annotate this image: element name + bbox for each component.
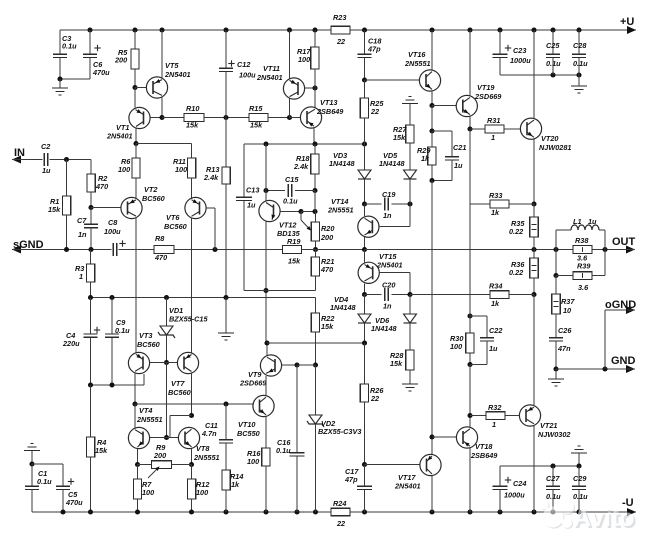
svg-text:VT11: VT11 <box>263 64 280 73</box>
transistor VT16 <box>419 70 440 91</box>
wire R37 top lead <box>555 276 557 295</box>
wire y404 line to VT10 base <box>135 403 253 405</box>
zener diode VD2 <box>309 415 322 424</box>
resistor R16 <box>262 448 270 466</box>
svg-text:470: 470 <box>95 182 108 191</box>
wire junction <box>88 247 93 252</box>
junction +U rail x=364.5 <box>362 27 367 32</box>
wire R29 bottom lead <box>431 165 433 181</box>
resistor R5 <box>131 49 139 69</box>
wire VT19 base <box>432 105 456 107</box>
wire block left down <box>555 250 557 276</box>
wire VT1 collector up <box>134 88 136 108</box>
wire base node vertical <box>166 363 168 438</box>
wire R9 left lead <box>138 464 152 466</box>
wire C28 bottom lead <box>578 58 580 76</box>
svg-text:BC560: BC560 <box>137 340 160 349</box>
svg-text:R32: R32 <box>488 403 501 412</box>
wire C4 top lead <box>90 298 92 335</box>
node R17 bottom / VT13 <box>312 85 317 90</box>
wire VT5 emitter down <box>161 98 163 118</box>
wire L1 right corner <box>604 230 606 250</box>
node R31 left <box>467 126 472 131</box>
svg-text:1k: 1k <box>231 480 240 489</box>
node C19 right / VD5 / VT14 base <box>407 201 412 206</box>
svg-text:VT18: VT18 <box>475 442 493 451</box>
wire junction <box>109 382 114 387</box>
wire ground stem <box>59 79 61 88</box>
svg-text:15k: 15k <box>321 322 334 331</box>
wire VT18 down to -U rail <box>469 448 471 512</box>
wire R16 bottom lead <box>265 466 267 512</box>
svg-text:R20: R20 <box>321 224 334 233</box>
transistor VT17 <box>420 454 441 475</box>
trimmer R20 <box>311 222 319 241</box>
svg-text:NJW0302: NJW0302 <box>538 430 570 439</box>
junction +U rail x=500 <box>497 27 502 32</box>
node VT6 emitter tap <box>212 247 217 252</box>
wire ground stem bottom right <box>578 453 580 466</box>
wire ground stem top right <box>578 75 580 86</box>
resistor R11 <box>187 158 195 178</box>
wire -U rail right <box>350 511 636 513</box>
capacitor C28 <box>572 53 586 55</box>
svg-text:R39: R39 <box>577 262 591 271</box>
wire R18 bottom lead <box>314 174 316 191</box>
svg-text:15k: 15k <box>48 205 61 214</box>
svg-text:0.1u: 0.1u <box>283 197 298 206</box>
svg-text:C26: C26 <box>558 326 572 335</box>
wire R22 bottom lead <box>315 332 317 365</box>
wire C21 bottom lead <box>451 160 453 181</box>
wire VT19e vertical upper <box>469 129 471 250</box>
svg-text:C28: C28 <box>573 41 587 50</box>
wire C15 left lead <box>266 190 285 192</box>
wire C23 bottom lead <box>499 58 501 76</box>
wire output rail <box>365 249 627 251</box>
svg-text:2SB649: 2SB649 <box>470 451 498 460</box>
wire R27 top lead <box>409 104 411 126</box>
wire C18 top lead <box>364 30 366 54</box>
wire bias line y144 <box>244 143 365 145</box>
wire VT13 base <box>290 117 301 119</box>
node output rail / VT14-VT15 <box>362 247 367 252</box>
svg-text:L1: L1 <box>573 217 582 226</box>
wire tap down to base node <box>169 416 171 438</box>
wire junction <box>553 247 558 252</box>
svg-text:2N5551: 2N5551 <box>136 415 163 424</box>
node VT9 / y343 line <box>264 340 269 345</box>
wire to R11 top <box>136 143 192 145</box>
svg-text:C24: C24 <box>513 479 526 488</box>
svg-text:1N4148: 1N4148 <box>330 303 357 312</box>
wire VT4 collector up <box>134 404 136 428</box>
wire C3-C6 bottom join <box>60 78 90 80</box>
svg-text:1: 1 <box>492 420 496 429</box>
node C20 left <box>362 292 367 297</box>
junction +U rail x=226 <box>223 27 228 32</box>
resistor R19 <box>283 246 302 254</box>
svg-text:100: 100 <box>247 457 259 466</box>
wire VT20 collector to +U <box>533 30 535 118</box>
wire junction <box>576 463 581 468</box>
wire C9 top lead <box>111 298 113 335</box>
junction +U rail x=432 <box>429 27 434 32</box>
wire R33 right lead <box>509 203 534 205</box>
capacitor C6 (electrolytic) <box>83 53 97 55</box>
svg-text:R10: R10 <box>186 104 199 113</box>
wire VD5 bottom lead <box>409 179 411 204</box>
svg-text:R19: R19 <box>287 237 301 246</box>
wire VT19e vertical mid <box>469 250 471 317</box>
wire VT9 emitter to VT10 <box>265 376 267 395</box>
wire C6 bottom lead <box>89 58 91 80</box>
transistor VT20 <box>520 118 541 139</box>
wire C7 bottom lead <box>90 228 92 250</box>
transistor VT18 <box>456 427 477 448</box>
wire +U rail right <box>350 29 636 31</box>
wire VD1 to base node <box>166 335 168 363</box>
wire R5 top lead <box>134 30 136 49</box>
resistor R34 <box>490 291 509 299</box>
wire R21 top lead <box>315 250 317 258</box>
resistor R27 <box>406 125 414 143</box>
wire R35 bottom lead <box>533 237 535 250</box>
wire C19 right lead <box>392 203 410 205</box>
svg-text:1N4148: 1N4148 <box>371 324 398 333</box>
junction -U rail x=470 <box>467 509 472 514</box>
wire junction <box>550 463 555 468</box>
svg-text:0.1u: 0.1u <box>115 326 130 335</box>
junction -U rail x=90.5 <box>88 509 93 514</box>
resistor R14 <box>222 470 230 490</box>
wire VT5 base <box>135 87 147 89</box>
svg-text:200: 200 <box>153 451 166 460</box>
svg-text:2SD669: 2SD669 <box>474 92 502 101</box>
resistor R29 <box>428 147 436 165</box>
wire C26 bottom lead <box>555 341 557 369</box>
svg-text:22: 22 <box>370 107 379 116</box>
wire R19 to out node <box>302 249 365 251</box>
resistor R3 <box>86 264 94 282</box>
wire L1 left corner <box>555 230 557 250</box>
wire VT20 emitter down <box>533 139 535 204</box>
wire R5 bottom lead <box>134 69 136 88</box>
svg-text:100: 100 <box>298 55 310 64</box>
node R34 right / VT21 emitter <box>531 292 536 297</box>
svg-text:1000u: 1000u <box>504 491 525 500</box>
wire VT10 emitter down <box>265 417 267 449</box>
resistor R10 <box>184 114 204 122</box>
svg-text:C25: C25 <box>546 41 560 50</box>
resistor R7 <box>133 479 141 499</box>
wire VT17 base <box>365 464 420 466</box>
svg-text:VT10: VT10 <box>238 420 255 429</box>
svg-text:R31: R31 <box>487 116 500 125</box>
node VT19 base <box>429 103 434 108</box>
node C11 top <box>223 401 228 406</box>
wire R25 top lead <box>364 80 366 98</box>
wire junction <box>263 141 268 146</box>
svg-text:VT16: VT16 <box>408 50 426 59</box>
wire junction <box>109 295 114 300</box>
wire C21 top branch <box>432 130 452 132</box>
svg-text:VT2: VT2 <box>144 185 157 194</box>
svg-text:C2: C2 <box>41 142 50 151</box>
svg-text:15k: 15k <box>95 446 108 455</box>
node R22 / VD2 / C16 line <box>313 362 318 367</box>
svg-text:C19: C19 <box>382 190 396 199</box>
wire <box>599 229 605 231</box>
junction +U rail x=534 <box>531 27 536 32</box>
node C15 right <box>312 188 317 193</box>
svg-text:2.4k: 2.4k <box>203 173 219 182</box>
resistor R2 <box>87 174 95 192</box>
svg-text:VT5: VT5 <box>165 61 179 70</box>
wire R27-VD5 <box>409 143 411 170</box>
wire <box>556 229 571 231</box>
wire VT16 base <box>365 79 420 81</box>
svg-text:+U: +U <box>620 16 634 28</box>
svg-text:220u: 220u <box>62 339 80 348</box>
wire VT5e to R10 <box>162 117 184 119</box>
svg-text:C27: C27 <box>546 474 560 483</box>
wire VT16 collector to +U <box>431 30 433 70</box>
svg-text:1u: 1u <box>489 344 498 353</box>
svg-text:3.6: 3.6 <box>578 283 589 292</box>
wire VT12 emitter/collector right <box>280 211 301 213</box>
wire VT15 emitter down <box>364 283 366 294</box>
wire VT14 base up to node <box>409 204 411 227</box>
svg-text:C13: C13 <box>246 186 259 195</box>
wire C17 bottom lead <box>364 490 366 513</box>
node C16 top <box>294 362 299 367</box>
node feedback on out rail <box>313 247 318 252</box>
wire R7 top lead <box>137 465 139 480</box>
transistor VT9 <box>260 355 281 376</box>
wire VD2 top lead <box>315 365 317 415</box>
svg-text:47n: 47n <box>557 344 571 353</box>
svg-text:1k: 1k <box>421 154 430 163</box>
wire C4 node down to R4 <box>90 385 92 437</box>
svg-text:VT7: VT7 <box>171 379 185 388</box>
wire <box>627 249 636 251</box>
IN terminal arrow <box>12 156 21 164</box>
-U terminal arrow <box>627 508 636 516</box>
svg-text:BC550: BC550 <box>237 429 260 438</box>
wire R34 left lead segment <box>470 294 490 296</box>
transistor VT13 <box>300 107 321 128</box>
wire R17 top lead <box>314 30 316 47</box>
wire R13 top lead <box>225 118 227 168</box>
wire C22 bottom lead <box>486 341 488 365</box>
wire IN to C2 <box>12 159 42 161</box>
svg-text:C23: C23 <box>513 46 526 55</box>
wire VT11 collector to +U <box>289 30 291 79</box>
svg-text:10: 10 <box>563 306 571 315</box>
wire ground stem down <box>31 451 33 465</box>
wire R31 left lead <box>470 128 485 130</box>
resistor R33 <box>490 200 509 208</box>
svg-text:470: 470 <box>154 253 167 262</box>
wire VT2 base <box>91 207 121 209</box>
transistor VT1 <box>129 107 150 128</box>
svg-text:1u: 1u <box>247 201 256 210</box>
wire block right down <box>604 250 606 276</box>
wire R6 to VT2 collector <box>135 178 137 199</box>
capacitor C25 <box>546 53 560 55</box>
wire R6 top lead <box>135 144 137 159</box>
svg-text:470: 470 <box>320 265 333 274</box>
node R33 right / R35 top <box>531 201 536 206</box>
capacitor C18 <box>358 53 372 55</box>
junction +U rail x=579 <box>576 27 581 32</box>
wire VD3 top lead <box>364 144 366 170</box>
svg-text:15k: 15k <box>393 133 406 142</box>
svg-text:100: 100 <box>450 342 462 351</box>
junction -U rail x=63 <box>60 509 65 514</box>
svg-text:2.4k: 2.4k <box>293 162 309 171</box>
capacitor C21 <box>445 156 459 158</box>
node VT16 base / R25 <box>362 77 367 82</box>
svg-text:1N4148: 1N4148 <box>329 159 356 168</box>
svg-text:VT8: VT8 <box>196 444 210 453</box>
junction -U rail x=364.5 <box>362 509 367 514</box>
diode VD3 <box>358 170 371 179</box>
ground (bias line) <box>218 332 234 334</box>
wire R1 bottom lead <box>66 215 68 250</box>
transistor VT7 <box>177 352 198 373</box>
transistor VT2 <box>121 197 142 218</box>
capacitor C24 (electrolytic) <box>493 485 508 487</box>
svg-text:C29: C29 <box>573 474 587 483</box>
svg-text:100: 100 <box>196 488 208 497</box>
wire R21 bottom lead <box>315 276 317 291</box>
svg-text:470u: 470u <box>92 68 110 77</box>
svg-text:BC560: BC560 <box>142 194 165 203</box>
capacitor C15 <box>287 184 289 197</box>
wire R20 top lead <box>315 212 317 223</box>
sGND terminal arrow <box>12 246 21 254</box>
wire <box>627 309 636 311</box>
svg-text:VT3: VT3 <box>139 331 152 340</box>
wire R25 bottom lead <box>364 118 366 144</box>
wire junction <box>223 295 228 300</box>
diode VD4 <box>358 314 371 323</box>
node R37 top <box>553 273 558 278</box>
svg-text:15k: 15k <box>288 257 301 266</box>
svg-text:VT13: VT13 <box>320 98 337 107</box>
resistor R17 <box>311 47 319 69</box>
svg-text:2N5551: 2N5551 <box>327 206 354 215</box>
capacitor C7 <box>84 223 98 225</box>
resistor R18 <box>311 154 319 174</box>
wire VT3 collector down <box>134 374 136 405</box>
wire VD1 top lead <box>166 298 168 327</box>
node VT2 base <box>88 205 93 210</box>
capacitor C16 <box>290 452 305 454</box>
ground (bottom-left, inverted) <box>24 450 40 452</box>
wire C1 bottom lead <box>31 490 33 513</box>
wire C5 bottom lead <box>62 490 64 513</box>
GND terminal arrow <box>626 365 635 373</box>
resistor R6 <box>132 158 140 178</box>
svg-text:2N5401: 2N5401 <box>256 73 283 82</box>
resistor R28 <box>406 350 414 370</box>
svg-text:1k: 1k <box>491 208 500 217</box>
wire C27 top lead <box>552 466 554 486</box>
node R6/R11 split <box>133 141 138 146</box>
wire C16 bottom lead <box>296 456 298 512</box>
wire R31 to VT20 base <box>504 128 520 130</box>
node R20 wiper tap <box>298 209 303 214</box>
svg-text:VT21: VT21 <box>540 421 557 430</box>
wire C2 to R2 <box>50 159 91 161</box>
svg-text:1: 1 <box>491 133 495 142</box>
junction -U rail x=553 <box>550 509 555 514</box>
junction -U rail x=315.5 <box>313 509 318 514</box>
wire C17 top lead <box>364 465 366 487</box>
wire VD3 bottom lead <box>364 179 366 204</box>
wire VT2 emitter to VT3 <box>135 218 137 353</box>
svg-text:15k: 15k <box>250 121 263 130</box>
wire R14 bottom lead <box>225 490 227 512</box>
svg-text:22: 22 <box>336 519 345 528</box>
wire R30 top lead <box>469 316 471 333</box>
wire -U rail left <box>32 511 331 513</box>
wire C4 bottom lead <box>90 337 92 385</box>
svg-text:2N5551: 2N5551 <box>193 453 220 462</box>
transistor VT19 <box>456 95 477 116</box>
svg-text:100u: 100u <box>239 71 256 80</box>
wire C3 top lead <box>59 30 61 54</box>
wire C6 top lead <box>89 30 91 54</box>
svg-text:GND: GND <box>611 355 636 367</box>
wire ground stem mid <box>225 298 227 334</box>
wire <box>300 212 302 221</box>
wire C1-C5 top join <box>32 463 63 465</box>
transistor VT8 <box>178 427 199 448</box>
wire C27 bottom lead <box>552 490 554 513</box>
polarity mark + <box>505 47 511 49</box>
wire VT15 base down to node <box>409 273 411 295</box>
wire VT1 emitter down <box>135 128 137 143</box>
svg-text:1u: 1u <box>588 217 597 226</box>
resistor R39 <box>573 272 592 280</box>
wire C24 top lead <box>499 466 501 486</box>
trimmer R9 <box>152 461 172 469</box>
junction -U rail x=191.5 <box>189 509 194 514</box>
svg-text:4.7n: 4.7n <box>201 429 217 438</box>
transistor VT10 <box>253 395 274 416</box>
wire junction <box>57 76 62 81</box>
wire C28 top lead <box>578 30 580 54</box>
svg-text:100: 100 <box>142 488 154 497</box>
node VT17 base / C17 <box>362 462 367 467</box>
svg-text:0.1u: 0.1u <box>276 446 291 455</box>
transistor VT4 <box>128 427 149 448</box>
wire VT4 base <box>150 437 167 439</box>
capacitor C22 <box>480 337 494 339</box>
wire oGND vertical <box>604 310 606 369</box>
svg-text:47p: 47p <box>344 475 358 484</box>
svg-text:R8: R8 <box>155 234 165 243</box>
wire VT16e down to C21 node <box>431 106 433 132</box>
wire C25 bottom lead <box>552 58 554 76</box>
wire R3 top lead <box>90 250 92 265</box>
wire C29 top lead <box>578 466 580 486</box>
wire VT3 base <box>150 362 167 364</box>
